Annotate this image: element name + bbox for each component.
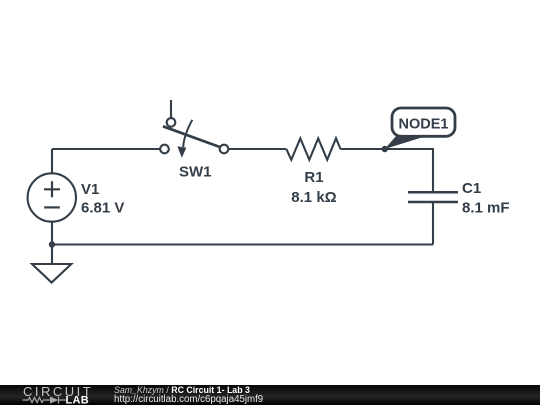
- svg-text:V1: V1: [81, 181, 99, 198]
- svg-text:8.1 kΩ: 8.1 kΩ: [291, 189, 336, 206]
- svg-text:SW1: SW1: [179, 164, 212, 181]
- svg-text:8.1 mF: 8.1 mF: [462, 200, 510, 217]
- svg-text:NODE1: NODE1: [399, 117, 449, 133]
- svg-text:LAB: LAB: [66, 394, 90, 405]
- svg-text:C1: C1: [462, 180, 481, 197]
- svg-text:R1: R1: [304, 169, 323, 186]
- svg-text:6.81 V: 6.81 V: [81, 200, 124, 217]
